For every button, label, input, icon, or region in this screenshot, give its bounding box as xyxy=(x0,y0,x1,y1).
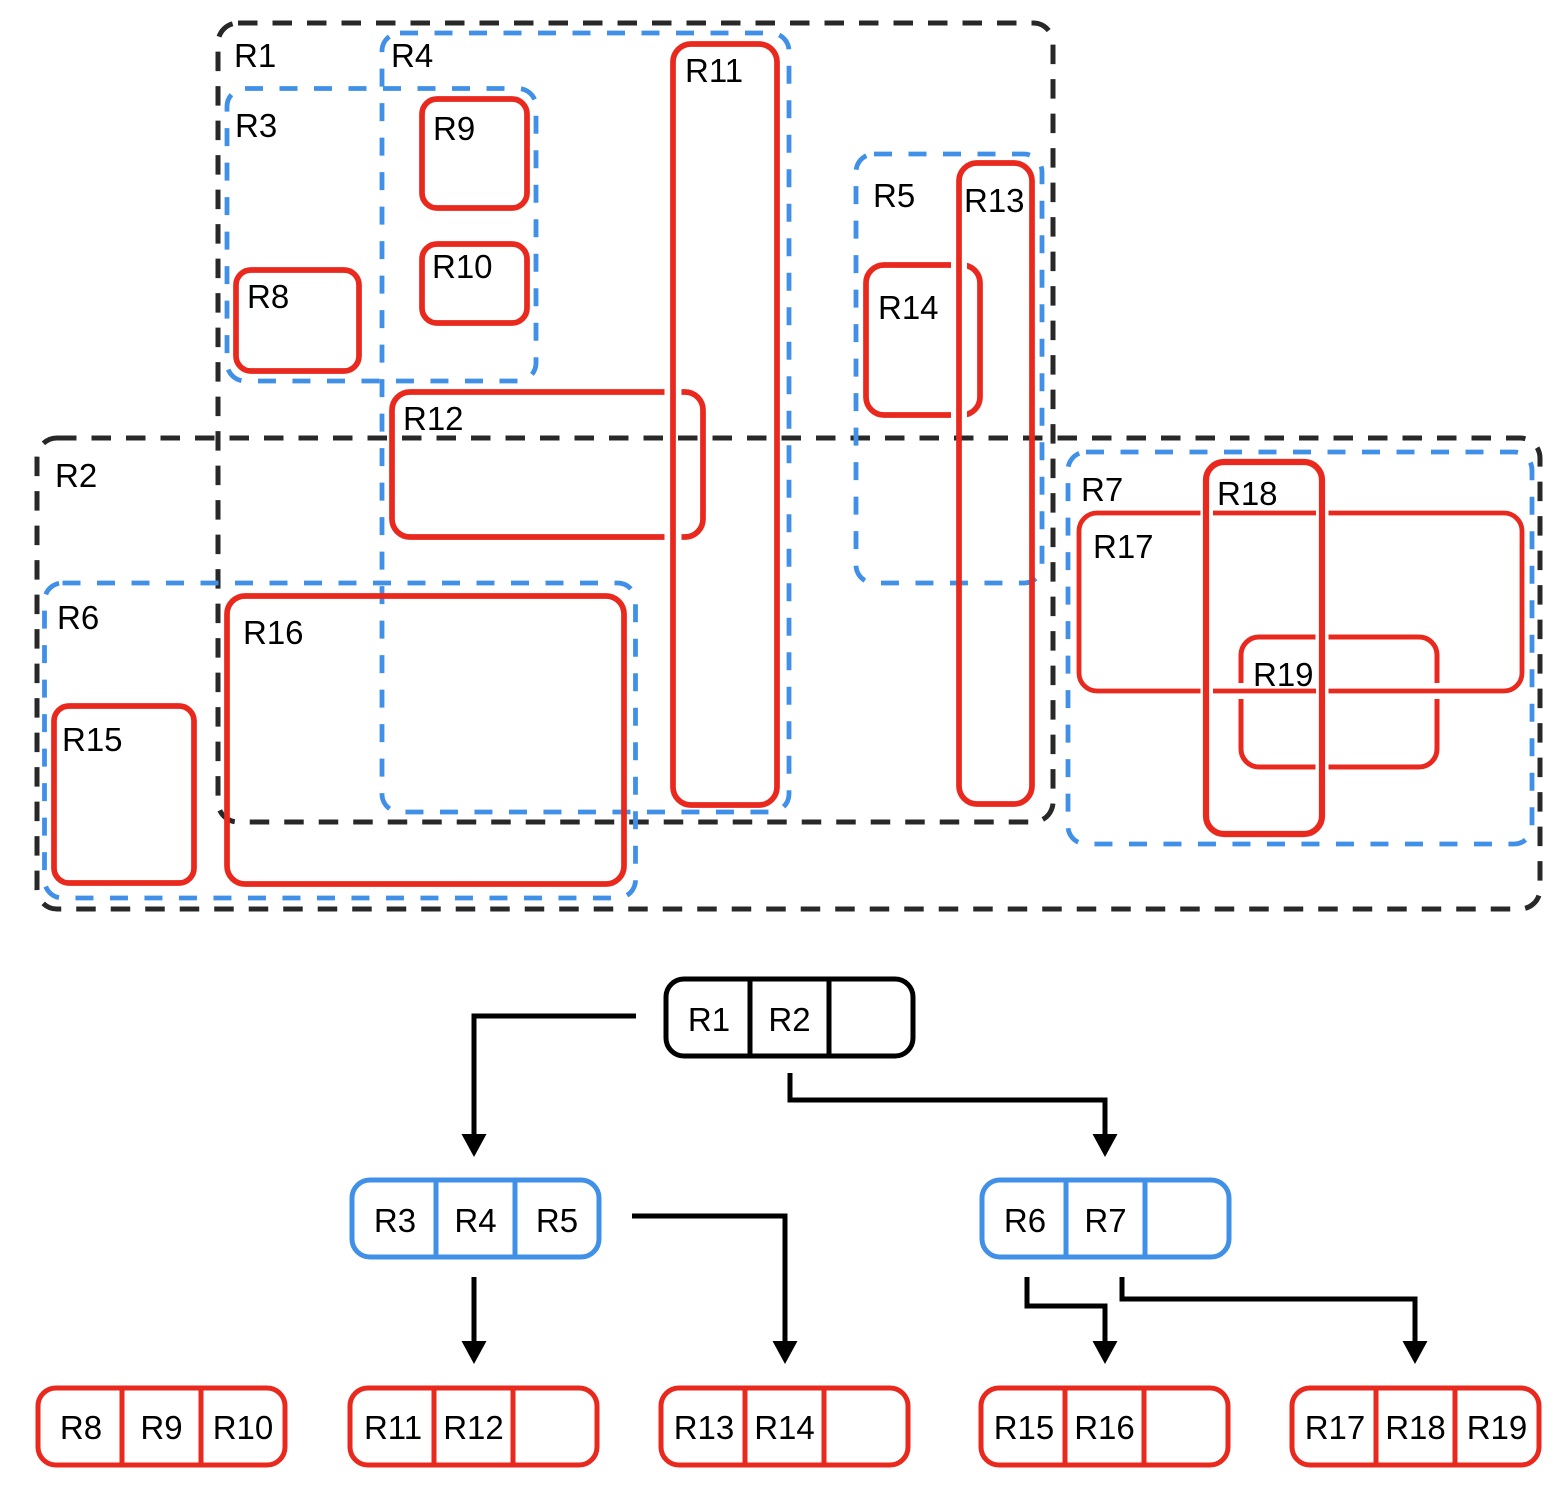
svg-text:R16: R16 xyxy=(243,614,304,651)
tree leaf2 divider 2 xyxy=(511,1388,516,1465)
svg-text:R3: R3 xyxy=(235,107,277,144)
svg-text:R11: R11 xyxy=(685,52,743,89)
rect R11 (red) xyxy=(673,44,777,805)
rect R9 (red) xyxy=(422,99,527,208)
tree leaf3 divider 2 xyxy=(822,1388,827,1465)
tree node level2-right box xyxy=(982,1180,1229,1257)
line-jump gap in R17 bottom edge at R18 left crossing xyxy=(1201,685,1214,697)
line-jump gap in R19 top edge at R18 crossing xyxy=(1316,631,1329,643)
svg-text:R4: R4 xyxy=(391,37,433,74)
svg-text:R12: R12 xyxy=(403,400,464,437)
svg-text:R2: R2 xyxy=(55,457,97,494)
rect R12 (red) xyxy=(392,392,703,537)
tree leaf4 divider 1 xyxy=(1063,1388,1068,1465)
rect R19 (red) xyxy=(1241,637,1437,767)
line-jump gap in R12 bottom edge at R11 crossing xyxy=(665,531,682,543)
rect R13 (red) xyxy=(959,163,1032,804)
line-jump gap in R17 bottom edge at R18 right crossing xyxy=(1316,685,1329,697)
svg-text:R7: R7 xyxy=(1084,1202,1126,1239)
svg-text:R1: R1 xyxy=(234,37,276,74)
tree leaf4 divider 2 xyxy=(1142,1388,1147,1465)
rect R17 (red) xyxy=(1079,513,1522,691)
rect R10 (red) xyxy=(422,244,527,323)
svg-text:R18: R18 xyxy=(1217,475,1278,512)
tree node level2-left divider 2 xyxy=(513,1180,518,1257)
svg-text:R9: R9 xyxy=(433,110,475,147)
rect R1 (black dashed) xyxy=(218,23,1053,822)
svg-text:R8: R8 xyxy=(60,1409,102,1446)
line-jump gap in R17 top edge at R18 right crossing xyxy=(1316,507,1329,519)
arrow R7 to leaf5 xyxy=(1122,1277,1415,1344)
tree node level2-left box xyxy=(352,1180,599,1257)
svg-text:R13: R13 xyxy=(674,1409,735,1446)
svg-text:R15: R15 xyxy=(62,721,123,758)
svg-text:R5: R5 xyxy=(873,177,915,214)
tree leaf3 box xyxy=(661,1388,908,1465)
rect R14 (red) xyxy=(866,265,980,415)
svg-text:R8: R8 xyxy=(247,278,289,315)
svg-text:R19: R19 xyxy=(1253,656,1314,693)
svg-text:R14: R14 xyxy=(754,1409,815,1446)
tree leaf2 divider 1 xyxy=(432,1388,437,1465)
tree leaf5 divider 2 xyxy=(1453,1388,1458,1465)
svg-text:R6: R6 xyxy=(1004,1202,1046,1239)
line-jump gap in R14 bottom edge at R13 crossing xyxy=(951,409,967,421)
tree leaf1 box xyxy=(38,1388,285,1465)
svg-text:R13: R13 xyxy=(964,182,1025,219)
svg-text:R4: R4 xyxy=(454,1202,496,1239)
svg-text:R10: R10 xyxy=(432,248,493,285)
svg-text:R16: R16 xyxy=(1074,1409,1135,1446)
rect R6 (blue dashed) xyxy=(45,583,636,898)
line-jump gap in R19 right edge at R17 crossing xyxy=(1432,683,1443,699)
rect R2 (black dashed) xyxy=(37,438,1540,909)
rect R18 (red) xyxy=(1206,462,1322,834)
line-jump gap in R19 bottom edge at R18 crossing xyxy=(1316,761,1329,773)
svg-text:R17: R17 xyxy=(1305,1409,1366,1446)
tree leaf5 divider 1 xyxy=(1374,1388,1379,1465)
tree node level2-right divider 2 xyxy=(1143,1180,1148,1257)
tree leaf5 box xyxy=(1292,1388,1539,1465)
tree node level2-left divider 1 xyxy=(434,1180,439,1257)
arrow root to right child xyxy=(790,1073,1105,1138)
svg-text:R15: R15 xyxy=(994,1409,1055,1446)
svg-text:R12: R12 xyxy=(443,1409,504,1446)
svg-text:R14: R14 xyxy=(878,289,939,326)
arrow R4 to leaf2 xyxy=(472,1277,477,1344)
svg-text:R2: R2 xyxy=(768,1001,810,1038)
arrow R5 to leaf3 xyxy=(632,1216,785,1344)
svg-text:R5: R5 xyxy=(536,1202,578,1239)
rect R8 (red) xyxy=(236,270,359,371)
rect R3 (blue dashed) xyxy=(227,89,536,382)
svg-text:R1: R1 xyxy=(688,1001,730,1038)
svg-text:R17: R17 xyxy=(1093,528,1154,565)
rect R15 (red) xyxy=(54,706,194,883)
svg-text:R19: R19 xyxy=(1467,1409,1528,1446)
rect R7 (blue dashed) xyxy=(1068,452,1532,844)
tree leaf4 box xyxy=(981,1388,1228,1465)
rect R16 (red) xyxy=(227,596,624,884)
tree leaf1 divider 2 xyxy=(199,1388,204,1465)
line-jump gap in R17 top edge at R18 left crossing xyxy=(1201,507,1214,519)
svg-text:R9: R9 xyxy=(140,1409,182,1446)
rect R4 (blue dashed) xyxy=(382,33,789,812)
line-jump gap in R19 left edge at R17 crossing xyxy=(1236,683,1247,699)
rect R5 (blue dashed) xyxy=(856,154,1042,583)
arrow root to left child xyxy=(474,1016,636,1138)
svg-text:R11: R11 xyxy=(364,1409,422,1446)
arrow R6 to leaf4 xyxy=(1027,1277,1105,1344)
tree node root box xyxy=(666,979,913,1056)
svg-text:R3: R3 xyxy=(374,1202,416,1239)
svg-text:R6: R6 xyxy=(57,599,99,636)
tree leaf2 box xyxy=(350,1388,597,1465)
tree node root divider 1 xyxy=(748,979,753,1056)
line-jump gap in R12 top edge at R11 crossing xyxy=(665,386,682,398)
tree leaf1 divider 1 xyxy=(120,1388,125,1465)
tree node level2-right divider 1 xyxy=(1064,1180,1069,1257)
tree leaf3 divider 1 xyxy=(743,1388,748,1465)
svg-text:R7: R7 xyxy=(1081,471,1123,508)
line-jump gap in R14 top edge at R13 crossing xyxy=(951,259,967,271)
svg-text:R10: R10 xyxy=(213,1409,274,1446)
svg-text:R18: R18 xyxy=(1385,1409,1446,1446)
tree node root divider 2 xyxy=(827,979,832,1056)
